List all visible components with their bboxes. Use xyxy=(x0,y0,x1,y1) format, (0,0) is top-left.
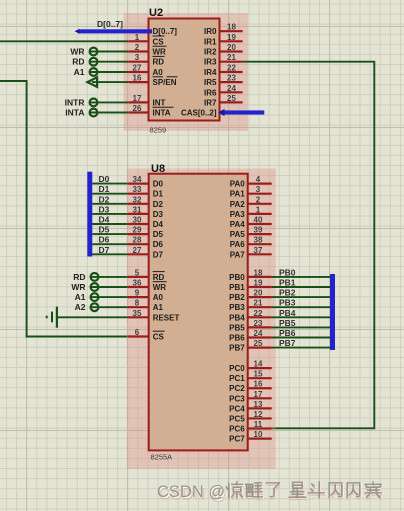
svg-text:D0: D0 xyxy=(99,174,110,184)
svg-text:9: 9 xyxy=(135,289,140,298)
svg-text:1: 1 xyxy=(256,205,261,214)
svg-text:18: 18 xyxy=(254,268,263,277)
svg-text:PB7: PB7 xyxy=(229,344,245,353)
bus PB (vertical, right) xyxy=(330,274,335,350)
svg-text:IR2: IR2 xyxy=(204,48,217,57)
svg-text:IR4: IR4 xyxy=(204,68,217,77)
svg-text:D[0..7]: D[0..7] xyxy=(153,27,178,36)
wire U2 terminal A1 xyxy=(90,71,129,73)
svg-text:IR7: IR7 xyxy=(204,98,217,107)
svg-text:25: 25 xyxy=(227,94,236,103)
wire U2 terminal WR xyxy=(90,51,129,53)
U2 input terminals (circles) xyxy=(90,48,98,56)
IC U2 (8259 interrupt controller) body xyxy=(149,19,220,121)
wire IR3 to PC6 xyxy=(243,62,375,429)
svg-text:PB4: PB4 xyxy=(279,308,296,318)
svg-text:D5: D5 xyxy=(99,225,110,235)
svg-text:10: 10 xyxy=(254,430,263,439)
svg-text:17: 17 xyxy=(254,390,263,399)
svg-text:WR: WR xyxy=(71,282,85,292)
svg-text:11: 11 xyxy=(254,420,263,429)
U8 left pin stubs xyxy=(128,183,149,185)
svg-text:U2: U2 xyxy=(149,7,163,19)
svg-text:CS: CS xyxy=(153,37,165,46)
svg-text:2: 2 xyxy=(135,43,140,52)
svg-text:22: 22 xyxy=(254,309,263,318)
svg-text:PB2: PB2 xyxy=(229,293,245,302)
svg-text:PB0: PB0 xyxy=(279,267,296,277)
svg-text:8259: 8259 xyxy=(150,126,167,135)
svg-text:PA2: PA2 xyxy=(230,200,246,209)
svg-text:8255A: 8255A xyxy=(151,453,173,462)
svg-text:IR0: IR0 xyxy=(204,27,217,36)
svg-text:PA6: PA6 xyxy=(230,240,246,249)
svg-text:CSDN @: CSDN @ xyxy=(157,483,225,501)
svg-text:PB3: PB3 xyxy=(279,298,296,308)
svg-text:37: 37 xyxy=(254,246,263,255)
svg-text:28: 28 xyxy=(133,236,142,245)
svg-text:31: 31 xyxy=(133,205,142,214)
wires D0-D7 bus to U8 xyxy=(92,183,128,185)
svg-text:19: 19 xyxy=(254,279,263,288)
svg-text:38: 38 xyxy=(254,236,263,245)
wire U2 /CS from left edge xyxy=(0,40,129,42)
svg-text:IR3: IR3 xyxy=(204,58,217,67)
U2 active-low overlines xyxy=(153,35,165,37)
svg-text:D6: D6 xyxy=(99,235,110,245)
svg-text:27: 27 xyxy=(133,64,142,73)
svg-text:20: 20 xyxy=(254,289,263,298)
bus CAS[0..2] out of U2 xyxy=(221,110,264,114)
wires PB0-PB7 to bus xyxy=(272,276,330,278)
svg-text:D4: D4 xyxy=(153,220,164,229)
svg-text:PC4: PC4 xyxy=(229,404,245,413)
svg-text:14: 14 xyxy=(254,360,263,369)
U2 right pin stubs IR0-IR7 xyxy=(220,30,243,32)
svg-text:RD: RD xyxy=(153,273,165,282)
U8 selection halo xyxy=(127,169,276,470)
svg-text:PB7: PB7 xyxy=(279,338,296,348)
svg-text:24: 24 xyxy=(227,84,236,93)
svg-text:CS: CS xyxy=(153,333,165,342)
svg-text:30: 30 xyxy=(133,216,142,225)
svg-text:36: 36 xyxy=(133,279,142,288)
svg-text:22: 22 xyxy=(227,64,236,73)
svg-text:CAS[0..2]: CAS[0..2] xyxy=(181,109,217,118)
svg-text:4: 4 xyxy=(256,175,261,184)
svg-text:A1: A1 xyxy=(74,67,85,77)
svg-text:WR: WR xyxy=(153,48,167,57)
svg-text:A1: A1 xyxy=(75,292,86,302)
svg-text:33: 33 xyxy=(133,185,142,194)
svg-text:23: 23 xyxy=(227,74,236,83)
svg-text:PC3: PC3 xyxy=(229,394,245,403)
svg-text:INT: INT xyxy=(153,98,166,107)
svg-text:PA0: PA0 xyxy=(230,180,246,189)
svg-text:PC6: PC6 xyxy=(229,425,245,434)
svg-text:D3: D3 xyxy=(99,204,110,214)
svg-text:WR: WR xyxy=(70,47,84,57)
svg-text:D0: D0 xyxy=(153,180,164,189)
svg-text:PC0: PC0 xyxy=(229,364,245,373)
wires U8 terminals xyxy=(91,276,128,278)
svg-text:18: 18 xyxy=(227,23,236,32)
svg-text:D7: D7 xyxy=(99,245,110,255)
svg-text:27: 27 xyxy=(133,246,142,255)
svg-text:23: 23 xyxy=(254,319,263,328)
svg-text:21: 21 xyxy=(254,299,263,308)
svg-text:21: 21 xyxy=(227,53,236,62)
U2 selection halo xyxy=(124,13,249,131)
svg-text:A2: A2 xyxy=(75,302,86,312)
svg-text:26: 26 xyxy=(133,104,142,113)
svg-text:16: 16 xyxy=(133,74,142,83)
svg-text:PA5: PA5 xyxy=(230,230,246,239)
svg-text:A0: A0 xyxy=(153,293,164,302)
svg-text:PC5: PC5 xyxy=(229,414,245,423)
svg-text:19: 19 xyxy=(227,33,236,42)
svg-text:D1: D1 xyxy=(153,190,164,199)
wire U8 /CS net (left edge, down, to U8 pin 6) xyxy=(0,81,128,337)
svg-text:34: 34 xyxy=(133,175,142,184)
U2 SP/EN arrow terminal xyxy=(87,77,97,87)
svg-text:17: 17 xyxy=(133,94,142,103)
svg-text:PA3: PA3 xyxy=(230,210,246,219)
wire U2 SP/EN terminal xyxy=(92,81,129,83)
wire U2 terminal RD xyxy=(90,61,129,63)
svg-text:39: 39 xyxy=(254,226,263,235)
svg-text:PB5: PB5 xyxy=(229,323,245,332)
svg-text:12: 12 xyxy=(254,410,263,419)
svg-text:24: 24 xyxy=(254,329,263,338)
svg-text:PB1: PB1 xyxy=(229,283,245,292)
svg-text:1: 1 xyxy=(135,33,140,42)
svg-text:D[0..7]: D[0..7] xyxy=(97,19,123,29)
svg-text:RD: RD xyxy=(153,58,165,67)
svg-text:D5: D5 xyxy=(153,230,164,239)
svg-text:RD: RD xyxy=(72,57,84,67)
svg-text:IR6: IR6 xyxy=(204,88,217,97)
svg-text:PB6: PB6 xyxy=(279,328,296,338)
svg-text:PC7: PC7 xyxy=(229,435,245,444)
svg-text:PC2: PC2 xyxy=(229,384,245,393)
svg-text:INTA: INTA xyxy=(153,109,171,118)
svg-text:20: 20 xyxy=(227,43,236,52)
svg-text:2: 2 xyxy=(256,195,261,204)
svg-text:32: 32 xyxy=(133,195,142,204)
svg-text:PB6: PB6 xyxy=(229,334,245,343)
svg-text:RD: RD xyxy=(73,272,85,282)
bus data D0-D7 (vertical, left of U8) xyxy=(87,172,92,257)
svg-text:PA7: PA7 xyxy=(230,250,246,259)
svg-text:IR1: IR1 xyxy=(204,37,217,46)
svg-text:40: 40 xyxy=(254,216,263,225)
svg-text:PA4: PA4 xyxy=(230,220,246,229)
svg-text:INTA: INTA xyxy=(65,108,84,118)
svg-text:PC1: PC1 xyxy=(229,374,245,383)
svg-text:13: 13 xyxy=(254,400,263,409)
U8 active-low overlines xyxy=(153,271,165,273)
svg-text:D7: D7 xyxy=(153,250,164,259)
svg-text:INTR: INTR xyxy=(65,97,85,107)
svg-text:3: 3 xyxy=(135,53,140,62)
svg-text:D1: D1 xyxy=(99,184,110,194)
wire U2 terminal INTA xyxy=(90,112,129,114)
svg-text:D6: D6 xyxy=(153,240,164,249)
ground symbol xyxy=(57,316,128,318)
svg-text:29: 29 xyxy=(133,226,142,235)
svg-text:A1: A1 xyxy=(153,303,164,312)
svg-text:SP/EN: SP/EN xyxy=(153,78,177,87)
U8 terminals (circles) xyxy=(91,273,99,281)
svg-text:6: 6 xyxy=(135,328,140,337)
svg-text:PB3: PB3 xyxy=(229,303,245,312)
svg-text:D4: D4 xyxy=(99,215,110,225)
svg-text:D3: D3 xyxy=(153,210,164,219)
svg-text:25: 25 xyxy=(254,339,263,348)
svg-text:D2: D2 xyxy=(99,194,110,204)
svg-text:8: 8 xyxy=(135,299,140,308)
U2 left pin stubs xyxy=(129,40,149,42)
svg-text:RESET: RESET xyxy=(153,313,180,322)
svg-text:16: 16 xyxy=(254,380,263,389)
svg-text:WR: WR xyxy=(153,283,167,292)
svg-text:PB4: PB4 xyxy=(229,313,245,322)
svg-text:U8: U8 xyxy=(151,163,165,175)
svg-text:PB1: PB1 xyxy=(279,278,296,288)
svg-text:D2: D2 xyxy=(153,200,164,209)
svg-text:IR5: IR5 xyxy=(204,78,217,87)
U8 right pin stubs xyxy=(248,183,272,185)
svg-text:15: 15 xyxy=(254,370,263,379)
IC U8 (8255A PPI) body xyxy=(149,174,248,451)
bus D[0..7] into U2 xyxy=(78,29,152,33)
watermark CSDN xyxy=(157,482,382,504)
svg-text:PB5: PB5 xyxy=(279,318,296,328)
svg-text:PA1: PA1 xyxy=(230,190,246,199)
svg-text:5: 5 xyxy=(135,268,140,277)
svg-text:PB2: PB2 xyxy=(279,288,296,298)
svg-text:35: 35 xyxy=(133,309,142,318)
svg-text:A0: A0 xyxy=(153,68,164,77)
svg-text:PB0: PB0 xyxy=(229,273,245,282)
svg-text:3: 3 xyxy=(256,185,261,194)
wire U2 terminal INTR xyxy=(90,101,129,103)
